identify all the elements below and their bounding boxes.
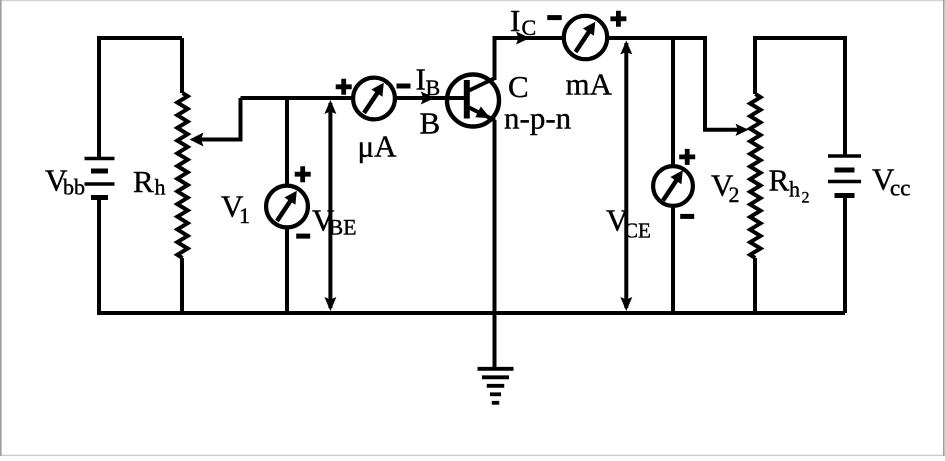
svg-text:n-p-n: n-p-n	[504, 101, 572, 136]
svg-text:2: 2	[802, 190, 810, 207]
svg-text:I: I	[510, 3, 520, 38]
svg-text:B: B	[426, 75, 441, 100]
svg-text:C: C	[522, 15, 537, 40]
svg-text:BE: BE	[329, 215, 357, 240]
svg-text:h: h	[155, 175, 166, 200]
svg-text:R: R	[769, 163, 790, 198]
svg-text:C: C	[508, 69, 529, 104]
svg-text:cc: cc	[890, 176, 910, 201]
svg-text:bb: bb	[63, 175, 85, 200]
svg-text:2: 2	[729, 182, 740, 207]
svg-text:μA: μA	[358, 128, 398, 163]
svg-text:I: I	[416, 62, 426, 97]
svg-text:CE: CE	[624, 219, 651, 243]
svg-text:mA: mA	[566, 67, 613, 102]
svg-text:B: B	[420, 106, 441, 141]
svg-text:1: 1	[239, 203, 250, 228]
svg-text:h: h	[789, 177, 800, 202]
svg-text:R: R	[133, 164, 154, 199]
